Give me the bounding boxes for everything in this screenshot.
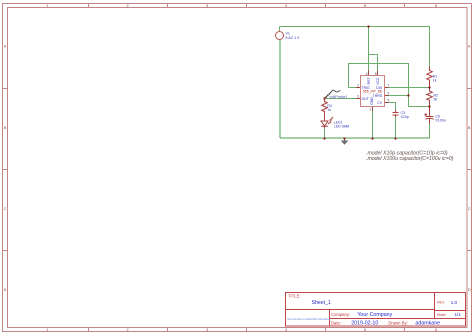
svg-text:Your Company: Your Company	[357, 312, 392, 318]
svg-text:D: D	[468, 288, 471, 292]
svg-text:8: 8	[375, 72, 377, 76]
svg-text:C: C	[468, 207, 471, 211]
svg-text:1/1: 1/1	[455, 312, 462, 317]
svg-text:OUT: OUT	[362, 97, 370, 101]
svg-text:X10p: X10p	[401, 115, 409, 119]
svg-text:THRS: THRS	[373, 94, 383, 98]
svg-text:Sheet:: Sheet:	[437, 313, 447, 317]
svg-text:3: 3	[357, 95, 359, 99]
svg-text:Drawn By:: Drawn By:	[388, 320, 407, 325]
svg-text:X100u: X100u	[435, 118, 445, 122]
svg-text:3: 3	[206, 4, 208, 8]
svg-text:A: A	[468, 45, 471, 49]
svg-text:5: 5	[388, 99, 390, 103]
svg-text:https://lceda.cn/editor#id=ada: https://lceda.cn/editor#id=adamkane	[287, 317, 331, 321]
svg-text:5: 5	[364, 328, 366, 332]
svg-text:.model X100u capacitor(C=100u: .model X100u capacitor(C=100u ic=0)	[366, 156, 454, 162]
svg-text:Company:: Company:	[331, 312, 350, 317]
svg-text:2: 2	[126, 328, 128, 332]
svg-text:B: B	[468, 126, 471, 130]
svg-text:4: 4	[285, 328, 287, 332]
svg-text:4: 4	[285, 4, 287, 8]
svg-text:D: D	[4, 288, 7, 292]
svg-text:2: 2	[357, 84, 359, 88]
svg-text:3: 3	[206, 328, 208, 332]
svg-text:B: B	[4, 126, 7, 130]
svg-text:6: 6	[435, 4, 437, 8]
svg-text:1k: 1k	[327, 108, 331, 112]
svg-text:LED-3MM: LED-3MM	[334, 124, 349, 128]
svg-text:2: 2	[126, 4, 128, 8]
svg-text:6: 6	[388, 92, 390, 96]
svg-text:5 AC 1 0: 5 AC 1 0	[286, 36, 300, 40]
svg-text:Sheet_1: Sheet_1	[312, 300, 331, 306]
svg-text:555_INT_88: 555_INT_88	[363, 90, 382, 94]
svg-text:6: 6	[435, 328, 437, 332]
svg-text:voltProbe1: voltProbe1	[329, 95, 347, 99]
svg-text:1: 1	[369, 108, 371, 112]
svg-text:5k: 5k	[434, 98, 438, 102]
svg-text:7: 7	[388, 84, 390, 88]
svg-text:1: 1	[46, 4, 48, 8]
svg-text:1: 1	[46, 328, 48, 332]
svg-text:TITLE:: TITLE:	[288, 293, 301, 298]
svg-text:adamkane: adamkane	[415, 320, 440, 326]
svg-text:REV:: REV:	[437, 301, 445, 305]
svg-text:2019-02-10: 2019-02-10	[351, 320, 378, 326]
svg-text:VCC: VCC	[376, 77, 380, 85]
svg-text:CV: CV	[377, 101, 382, 105]
svg-text:1.0: 1.0	[451, 300, 458, 305]
svg-text:A: A	[4, 45, 7, 49]
svg-text:C: C	[4, 207, 7, 211]
svg-text:GND: GND	[370, 97, 374, 105]
svg-text:4: 4	[366, 72, 368, 76]
svg-text:RST: RST	[367, 77, 371, 85]
svg-text:5: 5	[364, 4, 366, 8]
svg-text:V1: V1	[286, 32, 290, 36]
svg-text:Date:: Date:	[331, 320, 341, 325]
svg-text:1k: 1k	[433, 79, 437, 83]
